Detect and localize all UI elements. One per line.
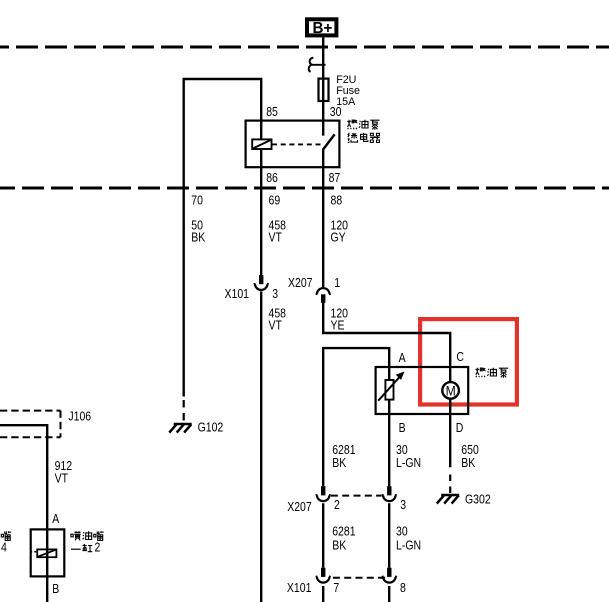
svg-text:3: 3: [400, 499, 406, 512]
svg-text:L-GN: L-GN: [396, 540, 421, 553]
svg-text:D: D: [456, 422, 464, 435]
svg-text:L-GN: L-GN: [396, 457, 421, 470]
svg-text:X101: X101: [287, 582, 312, 595]
svg-text:B: B: [52, 583, 59, 596]
svg-text:30: 30: [396, 444, 408, 457]
svg-text:3: 3: [272, 288, 278, 301]
svg-text:6281: 6281: [332, 526, 355, 539]
svg-text:1: 1: [334, 277, 340, 290]
svg-text:B+: B+: [312, 20, 332, 37]
svg-text:120: 120: [331, 220, 349, 233]
svg-text:VT: VT: [269, 232, 282, 245]
svg-text:X207: X207: [287, 501, 312, 514]
svg-text:YE: YE: [331, 320, 345, 333]
svg-text:458: 458: [269, 308, 287, 321]
svg-text:458: 458: [269, 220, 287, 233]
svg-text:650: 650: [461, 444, 479, 457]
svg-text:C: C: [456, 351, 464, 364]
svg-text:2: 2: [334, 499, 340, 512]
svg-text:G302: G302: [465, 494, 491, 507]
svg-text:70: 70: [191, 195, 203, 208]
svg-text:X207: X207: [288, 277, 313, 290]
svg-text:2: 2: [95, 542, 101, 555]
svg-text:86: 86: [266, 172, 278, 185]
svg-text:7: 7: [333, 582, 339, 595]
svg-text:50: 50: [191, 220, 203, 233]
svg-text:4: 4: [1, 542, 7, 555]
svg-text:A: A: [399, 352, 406, 365]
svg-text:B: B: [399, 422, 406, 435]
svg-text:BK: BK: [461, 457, 475, 470]
svg-text:G102: G102: [198, 422, 224, 435]
svg-text:J106: J106: [68, 411, 91, 424]
svg-text:120: 120: [331, 308, 349, 321]
svg-text:VT: VT: [55, 473, 68, 486]
svg-text:88: 88: [331, 195, 343, 208]
svg-text:BK: BK: [332, 540, 346, 553]
svg-text:6281: 6281: [332, 444, 355, 457]
svg-text:85: 85: [266, 106, 278, 119]
svg-text:GY: GY: [331, 232, 346, 245]
svg-text:VT: VT: [269, 320, 282, 333]
svg-text:30: 30: [396, 526, 408, 539]
svg-text:X101: X101: [225, 288, 250, 301]
svg-text:87: 87: [329, 172, 341, 185]
svg-text:69: 69: [269, 195, 281, 208]
svg-text:912: 912: [55, 460, 73, 473]
svg-text:M: M: [446, 383, 456, 399]
svg-text:30: 30: [330, 106, 342, 119]
svg-text:BK: BK: [332, 457, 346, 470]
svg-text:BK: BK: [191, 232, 205, 245]
svg-text:A: A: [52, 513, 59, 526]
svg-text:8: 8: [400, 582, 406, 595]
